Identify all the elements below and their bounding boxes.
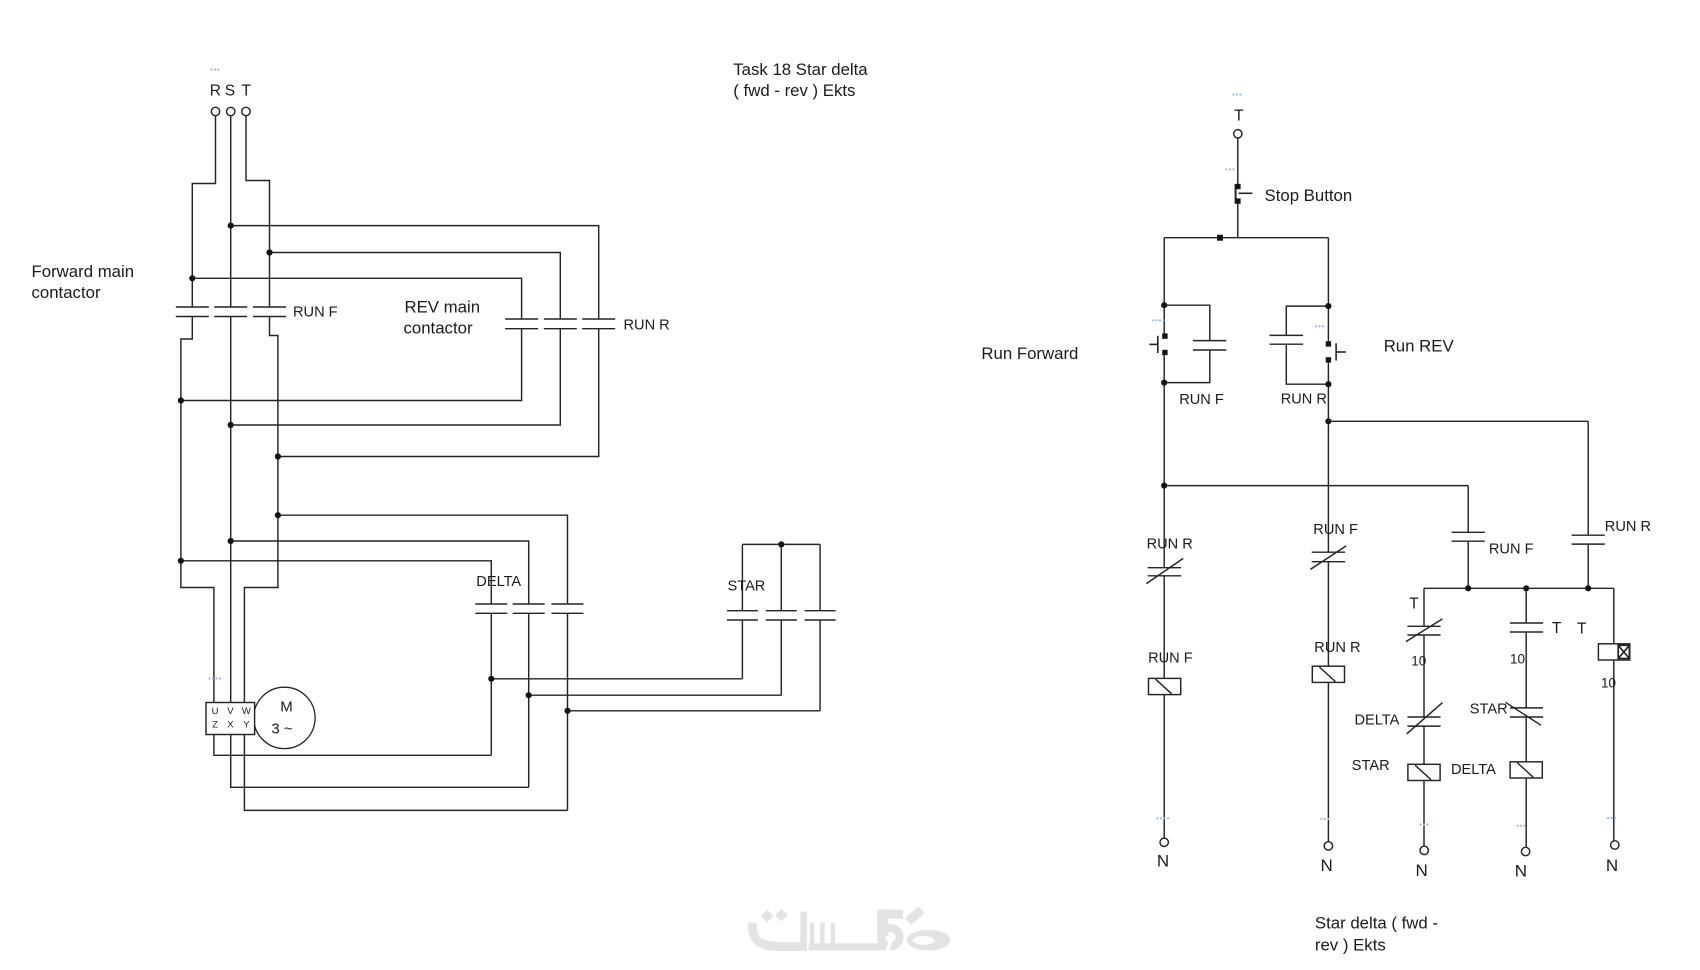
wire DELTA pole3 lower xyxy=(567,613,569,810)
svg-text:Run Forward: Run Forward xyxy=(981,344,1078,363)
RUN F main contact pole1 xyxy=(176,307,209,317)
wire DELTA3 to STAR3 xyxy=(568,620,821,711)
wire feed DELTA pole2 xyxy=(231,541,529,604)
RUN R holding contact xyxy=(1572,535,1605,544)
STAR contact pole2 xyxy=(766,611,797,620)
STAR NC interlock contact xyxy=(1506,702,1544,725)
svg-text:STAR: STAR xyxy=(1352,758,1390,774)
wire from T terminal xyxy=(1237,138,1239,184)
wire RUN F coil to N xyxy=(1163,695,1165,839)
stop button terminal squares xyxy=(1235,184,1240,189)
motor M circle xyxy=(254,687,315,748)
grid dots above RST xyxy=(210,68,219,70)
svg-text:Star delta ( fwd -: Star delta ( fwd - xyxy=(1315,914,1438,933)
DELTA contact pole1 xyxy=(475,604,507,613)
wire REV pole1 bottom xyxy=(181,329,522,401)
svg-text:N: N xyxy=(1606,856,1618,875)
T NO timed contact xyxy=(1510,623,1543,632)
wire REV pole3 bottom xyxy=(278,329,599,457)
wire STAR coil to N xyxy=(1423,781,1425,847)
DELTA NC interlock contact xyxy=(1407,703,1443,734)
terminal N branch D xyxy=(1521,847,1529,855)
wire DELTA NC to STAR coil xyxy=(1423,726,1425,764)
RUN F coil xyxy=(1149,678,1181,694)
DELTA coil xyxy=(1510,762,1542,778)
svg-text:X: X xyxy=(227,720,234,731)
node T-REV3 xyxy=(275,453,281,459)
wire tap R to REV pole1 xyxy=(192,278,521,319)
svg-text:contactor: contactor xyxy=(404,319,473,338)
svg-text:STAR: STAR xyxy=(1470,702,1508,718)
wire DELTA1 to STAR1 xyxy=(491,620,742,679)
node DELTA2-STAR2 xyxy=(526,692,532,698)
svg-text:10: 10 xyxy=(1601,676,1616,691)
Run Forward button squares xyxy=(1162,333,1167,338)
wire RUN R coil to N xyxy=(1327,682,1329,841)
REV main contact pole3 xyxy=(582,319,615,329)
svg-text:RUN F: RUN F xyxy=(1313,522,1358,538)
grid dots near motor xyxy=(208,677,221,679)
node branch B tap xyxy=(1325,418,1331,424)
wire DELTA pole2 lower xyxy=(528,613,530,787)
DELTA contact pole2 xyxy=(513,604,545,613)
wire branch C down xyxy=(1423,588,1425,626)
svg-text:Z: Z xyxy=(212,720,218,731)
wire below RUN F pole3 xyxy=(244,317,278,703)
svg-text:N: N xyxy=(1515,861,1527,880)
stop button NC contact xyxy=(1235,184,1237,204)
wire T NC to DELTA NC xyxy=(1423,635,1425,717)
wire left leg to Run Forward xyxy=(1163,238,1165,306)
timer T coil box xyxy=(1598,644,1629,660)
Run REV button actuator xyxy=(1335,343,1337,360)
node run rev top xyxy=(1325,303,1331,309)
node bus2 runR xyxy=(1585,585,1591,591)
svg-text:Run REV: Run REV xyxy=(1384,337,1455,356)
svg-text:RUN R: RUN R xyxy=(624,318,670,334)
svg-text:Stop Button: Stop Button xyxy=(1265,186,1353,205)
svg-text:RUN R: RUN R xyxy=(1147,536,1193,552)
svg-text:DELTA: DELTA xyxy=(1355,713,1400,729)
node R-REV1 xyxy=(178,397,184,403)
wire stop button to bus xyxy=(1237,204,1239,238)
wire motor U to DELTA1 xyxy=(214,735,491,756)
junction dots left circuit xyxy=(178,223,785,714)
svg-text:T: T xyxy=(1552,620,1562,637)
wire tap S to REV pole3 xyxy=(231,226,599,319)
Run REV pushbutton loop xyxy=(1286,306,1328,384)
node T-DELTA3 xyxy=(275,512,281,518)
svg-text:RUN F: RUN F xyxy=(1179,392,1224,408)
wire branch E down xyxy=(1613,588,1615,644)
terminal N branch A xyxy=(1160,838,1168,846)
terminal T control xyxy=(1234,130,1242,138)
svg-text:RUN F: RUN F xyxy=(1148,651,1193,667)
terminal N branch B xyxy=(1324,842,1332,850)
RUN F NC interlock contact xyxy=(1310,546,1346,570)
svg-text:DELTA: DELTA xyxy=(476,574,521,590)
terminal R xyxy=(211,107,219,115)
node bus2 timer NO xyxy=(1523,585,1529,591)
svg-text:Task 18 Star delta: Task 18 Star delta xyxy=(733,60,868,79)
svg-text:REV main: REV main xyxy=(405,298,481,317)
wire feed DELTA pole1 xyxy=(181,561,491,604)
Run Forward button actuator xyxy=(1157,336,1159,353)
svg-text:N: N xyxy=(1416,861,1428,880)
wire timer bus2 xyxy=(1424,587,1614,589)
node bus2 runF xyxy=(1465,585,1471,591)
svg-text:10: 10 xyxy=(1411,653,1426,668)
terminal N branch E xyxy=(1611,841,1619,849)
REV main contact pole1 xyxy=(505,319,538,329)
svg-text:RUN R: RUN R xyxy=(1314,640,1360,656)
node run fwd bottom xyxy=(1161,380,1167,386)
STAR contact pole3 xyxy=(805,611,836,620)
DELTA contact pole3 xyxy=(552,604,584,613)
RUN R NC interlock contact xyxy=(1146,558,1183,583)
svg-text:S: S xyxy=(225,83,235,100)
motor terminal box xyxy=(206,703,255,735)
wire REV pole2 bottom xyxy=(231,329,561,425)
svg-text:RUN R: RUN R xyxy=(1605,519,1651,535)
wire to RUN R coil xyxy=(1327,562,1329,667)
svg-text:contactor: contactor xyxy=(32,283,101,302)
RUN F holding contact xyxy=(1452,532,1485,541)
svg-text:T: T xyxy=(241,83,251,100)
svg-text:T: T xyxy=(1409,595,1419,612)
junction dots right circuit xyxy=(1161,302,1591,591)
node run rev bottom xyxy=(1325,381,1331,387)
wire DELTA coil to N xyxy=(1525,778,1527,847)
wire T NO to STAR NC xyxy=(1525,632,1527,708)
wire branch A to RUN F holding contact xyxy=(1164,486,1468,533)
node S-REV2 xyxy=(228,422,234,428)
node S-DELTA2 xyxy=(228,538,234,544)
svg-text:DELTA: DELTA xyxy=(1451,762,1496,778)
wire tap T to REV pole2 xyxy=(270,253,561,320)
node R-DELTA1 xyxy=(178,558,184,564)
wire timer coil to N xyxy=(1613,660,1615,841)
STAR contact pole1 xyxy=(727,611,758,620)
svg-text:T: T xyxy=(1577,620,1587,637)
terminal T xyxy=(242,107,250,115)
bus square marker xyxy=(1217,235,1223,241)
wire phase R xyxy=(192,116,215,307)
RUN R coil xyxy=(1312,666,1344,682)
node S tap xyxy=(228,223,234,229)
svg-text:N: N xyxy=(1157,852,1169,871)
svg-text:RUN F: RUN F xyxy=(293,305,338,321)
wire branch A down xyxy=(1163,383,1165,568)
svg-text:N: N xyxy=(1320,856,1332,875)
Run REV button squares xyxy=(1326,341,1331,346)
terminal N branch C xyxy=(1420,846,1428,854)
svg-text:10: 10 xyxy=(1510,651,1525,666)
wire phase T xyxy=(246,116,270,307)
wire RUN F holding to bus2 xyxy=(1467,541,1469,588)
node branch A tap xyxy=(1161,483,1167,489)
svg-text:M: M xyxy=(280,699,293,716)
svg-text:( fwd - rev ) Ekts: ( fwd - rev ) Ekts xyxy=(733,81,855,100)
wire RUN R holding to bus2 xyxy=(1587,544,1589,588)
wire DELTA pole1 lower xyxy=(490,613,492,755)
wire below RUN F pole2 xyxy=(230,317,232,703)
wire feed DELTA pole3 xyxy=(278,515,568,604)
svg-text:T: T xyxy=(1234,107,1244,124)
wire control bus top xyxy=(1164,237,1328,239)
RUN F main contact pole3 xyxy=(253,307,286,317)
REV main contact pole2 xyxy=(544,319,577,329)
svg-text:Forward main: Forward main xyxy=(32,262,135,281)
wire star point bridge xyxy=(742,544,820,610)
wire STAR NC to DELTA coil xyxy=(1525,717,1527,762)
svg-text:W: W xyxy=(242,706,251,717)
Run Forward pushbutton loop xyxy=(1164,305,1210,382)
grid dots above T xyxy=(1232,93,1241,95)
terminal S xyxy=(227,107,235,115)
wire motor W to DELTA3 xyxy=(244,735,567,811)
node star bridge xyxy=(778,541,784,547)
svg-text:Y: Y xyxy=(243,720,250,731)
node DELTA3-STAR3 xyxy=(564,708,570,714)
T NC timed contact xyxy=(1406,619,1443,642)
watermark khamsat logo xyxy=(752,909,950,953)
node R tap xyxy=(189,275,195,281)
node run fwd top xyxy=(1161,302,1167,308)
svg-text:RUN R: RUN R xyxy=(1281,392,1327,408)
node T tap xyxy=(266,249,272,255)
wire to RUN F coil xyxy=(1163,576,1165,679)
wire branch B down xyxy=(1327,384,1329,552)
RUN F aux contact xyxy=(1193,341,1226,350)
svg-text:R: R xyxy=(210,83,221,100)
RUN R aux contact xyxy=(1270,335,1304,344)
wire branch D down xyxy=(1525,588,1527,623)
svg-text:RUN F: RUN F xyxy=(1489,542,1534,558)
wire below RUN F pole1 xyxy=(181,317,214,703)
RUN F main contact pole2 xyxy=(214,307,247,317)
svg-text:3 ~: 3 ~ xyxy=(271,721,293,738)
node DELTA1-STAR1 xyxy=(488,676,494,682)
wire DELTA2 to STAR2 xyxy=(529,620,782,695)
wire motor V to DELTA2 xyxy=(231,735,529,788)
STAR coil xyxy=(1408,764,1440,780)
svg-text:rev ) Ekts: rev ) Ekts xyxy=(1315,936,1386,955)
wire branch B to RUN R holding contact xyxy=(1328,421,1588,535)
wire phase S xyxy=(230,116,232,307)
svg-text:V: V xyxy=(227,706,234,717)
svg-text:U: U xyxy=(212,706,219,717)
grid dots right circuit xyxy=(1152,168,1616,827)
wire right leg to Run REV xyxy=(1327,238,1329,306)
svg-text:STAR: STAR xyxy=(728,579,766,595)
